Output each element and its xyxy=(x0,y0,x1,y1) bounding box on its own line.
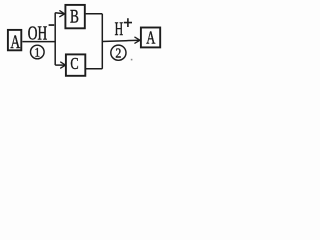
wire main arrow to A right xyxy=(102,40,140,41)
svg-text:1: 1 xyxy=(35,45,41,60)
svg-text:B: B xyxy=(70,8,79,28)
box A right xyxy=(141,28,160,48)
plus sign of H+ xyxy=(124,18,132,27)
arrowhead into C xyxy=(61,62,66,68)
svg-text:H: H xyxy=(115,20,124,40)
box C xyxy=(66,54,85,75)
box B xyxy=(65,5,84,28)
box A left xyxy=(8,30,21,50)
wire split vertical xyxy=(54,13,56,65)
circle 1 xyxy=(31,45,45,59)
scan speck xyxy=(131,59,133,61)
arrowhead into A right xyxy=(135,37,140,43)
superscript minus of OH- xyxy=(49,24,55,26)
arrowhead into B xyxy=(60,11,65,17)
wire C out xyxy=(86,68,102,70)
wire merge vertical xyxy=(101,14,103,69)
wire branch to C xyxy=(55,64,65,66)
circle 2 xyxy=(111,45,126,60)
svg-text:C: C xyxy=(70,55,78,73)
wire branch to B xyxy=(55,13,64,14)
wire B out xyxy=(86,13,103,15)
svg-text:2: 2 xyxy=(115,44,121,60)
wire A to split xyxy=(22,41,55,43)
svg-text:OH: OH xyxy=(28,23,47,44)
svg-text:A: A xyxy=(146,29,155,49)
svg-text:A: A xyxy=(10,31,20,53)
